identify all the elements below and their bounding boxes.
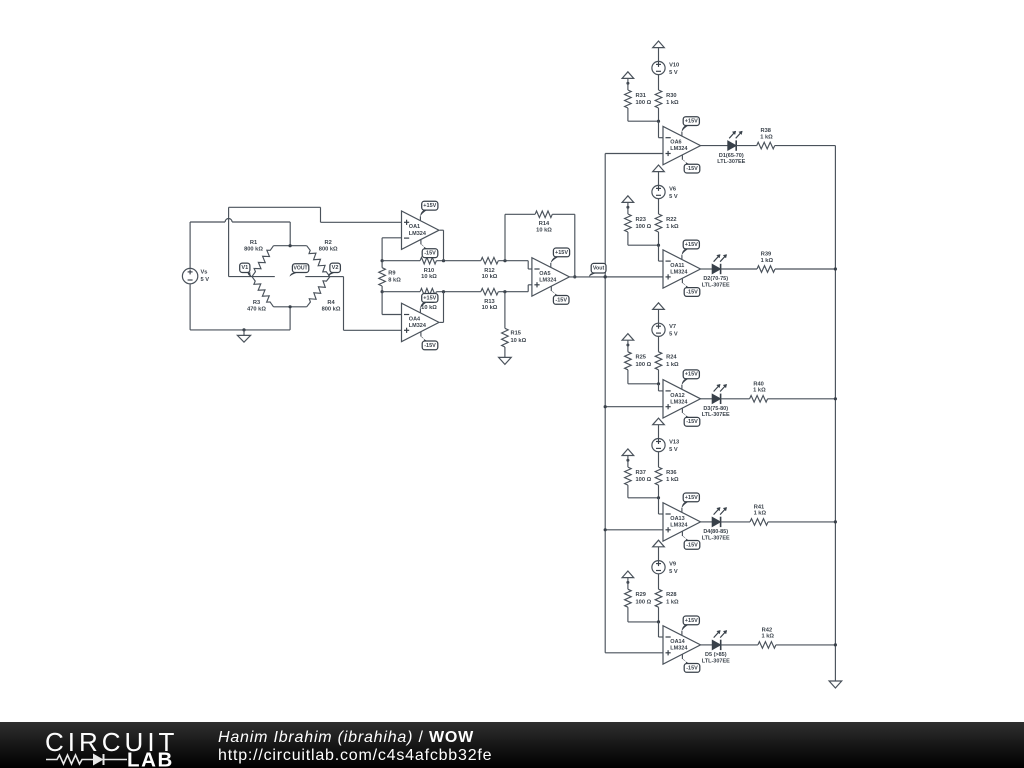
svg-text:-15V: -15V [686,289,698,295]
svg-text:LTL-307EE: LTL-307EE [717,159,745,165]
svg-text:R30: R30 [666,93,676,99]
svg-text:LTL-307EE: LTL-307EE [702,412,730,418]
svg-text:1 kΩ: 1 kΩ [761,258,774,264]
svg-text:8 kΩ: 8 kΩ [388,278,401,284]
svg-text:R10: R10 [424,268,434,274]
svg-text:R12: R12 [484,268,494,274]
svg-text:D1(65-70): D1(65-70) [719,153,744,159]
svg-text:V13: V13 [669,440,679,446]
svg-text:5 V: 5 V [669,70,678,76]
svg-text:1 kΩ: 1 kΩ [666,362,679,368]
svg-text:+15V: +15V [685,495,698,501]
svg-text:1 kΩ: 1 kΩ [666,477,679,483]
svg-text:800 kΩ: 800 kΩ [322,306,341,312]
svg-text:LM324: LM324 [539,278,557,284]
svg-text:OA12: OA12 [670,393,684,399]
svg-text:+15V: +15V [685,242,698,248]
svg-text:V10: V10 [669,62,679,68]
svg-text:V6: V6 [669,186,676,192]
svg-text:5 V: 5 V [669,332,678,338]
svg-text:R3: R3 [253,300,260,306]
svg-text:10 kΩ: 10 kΩ [482,305,498,311]
svg-text:1 kΩ: 1 kΩ [753,388,766,394]
svg-text:-15V: -15V [555,297,567,303]
svg-text:1 kΩ: 1 kΩ [761,634,774,640]
svg-text:470 kΩ: 470 kΩ [247,306,266,312]
svg-text:800 kΩ: 800 kΩ [319,247,338,253]
svg-text:OA1: OA1 [409,224,420,230]
svg-text:100 Ω: 100 Ω [636,224,652,230]
svg-text:R1: R1 [250,240,257,246]
svg-text:5 V: 5 V [201,277,210,283]
svg-text:10 kΩ: 10 kΩ [421,305,437,311]
svg-text:LM324: LM324 [670,646,688,652]
svg-text:-15V: -15V [686,542,698,548]
svg-text:LM324: LM324 [670,270,688,276]
svg-text:R9: R9 [388,271,395,277]
svg-text:10 kΩ: 10 kΩ [482,274,498,280]
svg-text:OA4: OA4 [409,316,421,322]
svg-text:V9: V9 [669,562,676,568]
svg-text:+15V: +15V [685,119,698,125]
svg-text:100 Ω: 100 Ω [636,477,652,483]
svg-text:D5 (>85): D5 (>85) [705,652,727,658]
svg-text:R4: R4 [327,300,335,306]
svg-text:-15V: -15V [424,343,436,349]
svg-text:OA13: OA13 [670,516,684,522]
svg-text:R22: R22 [666,217,676,223]
svg-text:R14: R14 [539,221,550,227]
svg-text:V7: V7 [669,324,676,330]
svg-text:LAB: LAB [127,749,174,768]
svg-text:R40: R40 [753,381,763,387]
svg-text:LM324: LM324 [670,146,688,152]
svg-text:10 kΩ: 10 kΩ [536,227,552,233]
svg-text:+15V: +15V [555,250,568,256]
svg-text:R36: R36 [666,470,676,476]
svg-text:D4(80-85): D4(80-85) [703,529,728,535]
svg-text:OA11: OA11 [670,263,684,269]
svg-text:Vout: Vout [593,266,605,272]
svg-text:800 kΩ: 800 kΩ [244,247,263,253]
svg-text:VOUT: VOUT [294,266,309,272]
svg-text:OA14: OA14 [670,639,685,645]
svg-text:-15V: -15V [686,419,698,425]
svg-text:+15V: +15V [423,203,436,209]
svg-text:D2(70-75): D2(70-75) [703,276,728,282]
svg-text:100 Ω: 100 Ω [636,599,652,605]
svg-text:LM324: LM324 [670,523,688,529]
svg-text:R15: R15 [511,331,521,337]
svg-text:V1: V1 [241,265,248,271]
svg-text:R29: R29 [636,592,646,598]
svg-text:R23: R23 [636,217,646,223]
svg-text:+15V: +15V [685,618,698,624]
svg-text:+15V: +15V [423,295,436,301]
svg-text:LM324: LM324 [670,399,688,405]
svg-text:1 kΩ: 1 kΩ [666,224,679,230]
svg-text:R24: R24 [666,355,677,361]
svg-text:D3(75-80): D3(75-80) [703,406,728,412]
svg-text:R25: R25 [636,355,646,361]
svg-text:1 kΩ: 1 kΩ [754,511,767,517]
svg-text:1 kΩ: 1 kΩ [760,134,773,140]
svg-text:1 kΩ: 1 kΩ [666,599,679,605]
svg-text:R28: R28 [666,592,676,598]
svg-text:10 kΩ: 10 kΩ [511,338,527,344]
svg-text:V2: V2 [332,265,339,271]
svg-text:R42: R42 [762,628,772,634]
svg-text:5 V: 5 V [669,569,678,575]
svg-text:100 Ω: 100 Ω [636,362,652,368]
svg-text:LTL-307EE: LTL-307EE [702,282,730,288]
svg-text:-15V: -15V [686,166,698,172]
svg-text:R41: R41 [754,505,764,511]
svg-text:R13: R13 [484,299,494,305]
svg-text:R31: R31 [636,93,646,99]
svg-text:-15V: -15V [424,251,436,257]
svg-text:OA5: OA5 [539,271,550,277]
svg-text:100 Ω: 100 Ω [636,100,652,106]
svg-text:R38: R38 [760,128,770,134]
svg-text:10 kΩ: 10 kΩ [421,274,437,280]
svg-text:LTL-307EE: LTL-307EE [702,658,730,664]
svg-text:R37: R37 [636,470,646,476]
svg-text:LM324: LM324 [409,231,427,237]
svg-text:1 kΩ: 1 kΩ [666,100,679,106]
svg-text:OA6: OA6 [670,140,681,146]
svg-text:5 V: 5 V [669,447,678,453]
svg-text:5 V: 5 V [669,194,678,200]
svg-text:-15V: -15V [686,665,698,671]
svg-text:Vs: Vs [201,270,208,276]
svg-text:LM324: LM324 [409,323,427,329]
svg-text:R39: R39 [761,252,771,258]
svg-text:LTL-307EE: LTL-307EE [702,535,730,541]
svg-text:R2: R2 [325,240,332,246]
svg-text:+15V: +15V [685,372,698,378]
